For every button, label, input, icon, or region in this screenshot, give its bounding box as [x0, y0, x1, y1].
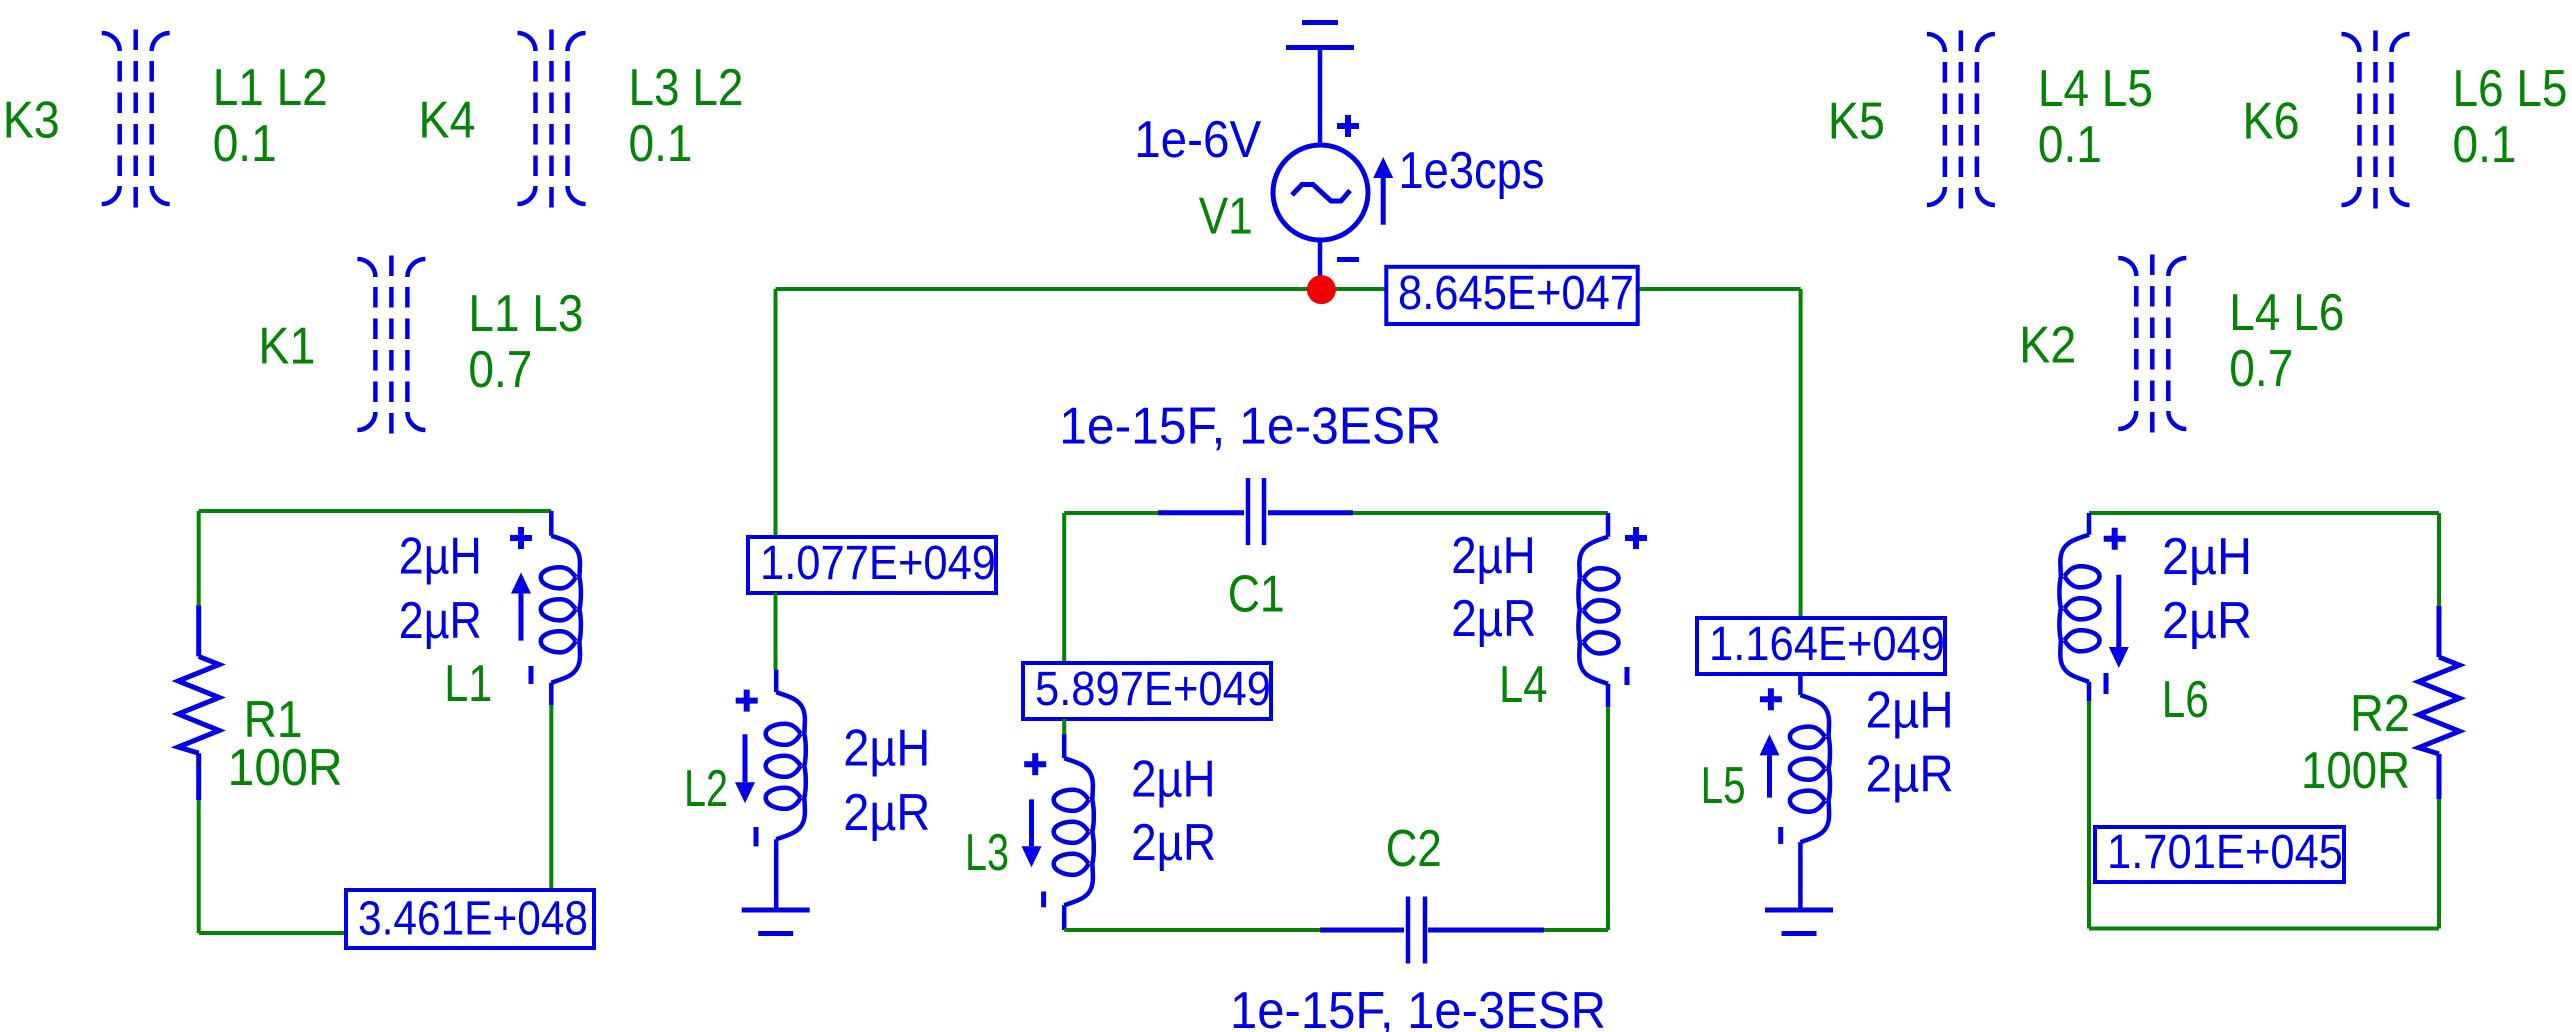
wire center bottom left: [1064, 928, 1322, 932]
inductor L6: [2059, 513, 2099, 701]
svg-text:L4: L4: [1499, 656, 1548, 714]
current box 5.897E+049: [1023, 663, 1271, 719]
svg-text:L2: L2: [684, 760, 728, 818]
pin + of L1: [510, 527, 532, 549]
svg-text:3.461E+048: 3.461E+048: [358, 893, 588, 946]
svg-text:V1: V1: [1199, 188, 1253, 246]
pin + of L6: [2104, 528, 2126, 550]
svg-text:L6: L6: [2162, 671, 2209, 729]
svg-text:2µR: 2µR: [1131, 814, 1216, 872]
svg-text:2µR: 2µR: [1451, 590, 1536, 648]
svg-text:5.897E+049: 5.897E+049: [1035, 663, 1271, 716]
svg-text:L6 L5: L6 L5: [2453, 60, 2568, 118]
ground (L2 bottom): [742, 910, 810, 934]
wire left loop bottom: [199, 931, 552, 935]
current arrow of L3 (down): [1022, 799, 1042, 867]
current box 1.701E+045: [2095, 826, 2344, 882]
current box 3.461E+048: [346, 890, 594, 948]
capacitor C1: [1158, 478, 1353, 545]
wire main horizontal (right segment to L5 branch): [1321, 287, 1801, 291]
svg-text:2µH: 2µH: [2162, 528, 2252, 586]
wire L3 branch upper: [1062, 513, 1066, 665]
wire left loop left upper: [197, 511, 201, 605]
svg-text:L1 L3: L1 L3: [468, 285, 583, 343]
pin + of L5: [1760, 688, 1782, 710]
node junction (red dot) at V1 minus: [1307, 275, 1336, 304]
pin - of L5: [1778, 827, 1783, 844]
svg-text:2µR: 2µR: [843, 784, 930, 842]
svg-text:1.164E+049: 1.164E+049: [1709, 618, 1945, 671]
coupling K3 symbol: [102, 30, 170, 209]
svg-text:2µR: 2µR: [399, 592, 482, 650]
current arrow of L5 (up): [1760, 734, 1780, 797]
current arrow of V1: [1373, 157, 1393, 225]
wire L3 branch stub: [1062, 719, 1066, 735]
resistor R1: [178, 605, 219, 800]
wire right loop top: [2089, 511, 2439, 515]
value label K6: L6 L5 0.1: [2453, 60, 2568, 174]
capacitor C2: [1320, 897, 1544, 964]
svg-text:0.7: 0.7: [2229, 340, 2293, 398]
svg-text:K4: K4: [419, 92, 476, 150]
svg-text:1.077E+049: 1.077E+049: [760, 537, 996, 590]
svg-text:C2: C2: [1386, 820, 1442, 878]
wire right loop bottom: [2089, 927, 2439, 931]
svg-text:L5: L5: [1701, 757, 1746, 815]
voltage source V1: [1273, 145, 1368, 240]
svg-text:K3: K3: [3, 92, 60, 150]
resistor R2: [2419, 606, 2460, 799]
current arrow of L1 (up): [511, 573, 531, 641]
current box 1.077E+049: [748, 537, 996, 593]
svg-text:0.1: 0.1: [213, 115, 277, 173]
pin + of L3: [1024, 753, 1046, 775]
inductor L3: [1054, 734, 1094, 930]
pin - of L6: [2104, 673, 2109, 694]
wire left loop top: [199, 509, 552, 513]
current box 1.164E+049: [1697, 618, 1945, 674]
wire right loop right upper: [2437, 513, 2441, 606]
svg-text:0.1: 0.1: [2038, 116, 2102, 174]
pin + of L2: [736, 690, 758, 712]
pin - of L4: [1625, 667, 1630, 685]
svg-text:2µH: 2µH: [1866, 682, 1954, 740]
svg-text:C1: C1: [1228, 565, 1285, 623]
svg-text:2µH: 2µH: [399, 528, 482, 586]
inductor L4: [1578, 513, 1618, 707]
coupling K5 symbol: [1927, 31, 1995, 210]
pin - of L1: [529, 666, 534, 684]
wire L2 branch top: [774, 289, 778, 539]
ground (L5 bottom): [1765, 910, 1833, 934]
svg-text:1e-15F, 1e-3ESR: 1e-15F, 1e-3ESR: [1059, 398, 1441, 456]
pin - of L3: [1041, 892, 1046, 908]
coupling K1 symbol: [357, 256, 425, 435]
svg-text:2µR: 2µR: [2162, 592, 2252, 650]
pin - of V1: [1337, 257, 1359, 262]
current arrow of L6 (down): [2109, 575, 2129, 668]
svg-text:100R: 100R: [2301, 742, 2410, 800]
coupling K2 symbol: [2118, 255, 2186, 434]
svg-text:0.1: 0.1: [629, 115, 693, 173]
value label K3: L1 L2 0.1: [213, 59, 328, 173]
svg-text:1.701E+045: 1.701E+045: [2107, 826, 2343, 879]
svg-text:L1 L2: L1 L2: [213, 59, 328, 117]
pin + of L4: [1625, 527, 1647, 549]
svg-text:8.645E+047: 8.645E+047: [1398, 267, 1634, 320]
wire left loop left lower: [197, 800, 201, 933]
wire main horizontal (left segment to L2 branch): [776, 287, 1322, 291]
svg-text:2µH: 2µH: [1451, 527, 1536, 585]
wire left loop right lower: [549, 705, 553, 933]
inductor L5: [1790, 674, 1830, 909]
wire L4 branch lower: [1606, 707, 1610, 930]
svg-text:100R: 100R: [228, 739, 343, 797]
wire L5 branch top: [1799, 289, 1803, 620]
inductor L2: [766, 670, 806, 909]
wire V1 bottom lead: [1318, 240, 1323, 289]
wire right loop left lower: [2087, 701, 2091, 929]
svg-text:K5: K5: [1828, 93, 1885, 151]
svg-text:0.7: 0.7: [468, 341, 532, 399]
wire right loop right lower: [2437, 799, 2441, 929]
svg-text:2µH: 2µH: [843, 720, 930, 778]
current arrow of L2 (down): [735, 734, 755, 803]
value label K4: L3 L2 0.1: [629, 59, 744, 173]
pin - of L2: [754, 827, 759, 846]
ground (top, at V1 plus terminal): [1286, 23, 1354, 48]
wire V1 top lead: [1318, 48, 1323, 146]
wire center top right: [1353, 511, 1608, 515]
svg-text:1e-6V: 1e-6V: [1134, 111, 1261, 169]
svg-text:L3 L2: L3 L2: [629, 59, 744, 117]
svg-text:K2: K2: [2019, 317, 2076, 375]
coupling K6 symbol: [2342, 31, 2410, 210]
pin + of V1: [1337, 115, 1359, 137]
svg-text:L4 L6: L4 L6: [2229, 284, 2344, 342]
svg-text:2µH: 2µH: [1131, 751, 1216, 809]
svg-text:2µR: 2µR: [1866, 746, 1954, 804]
current box 8.645E+047: [1386, 267, 1637, 324]
svg-text:1e3cps: 1e3cps: [1399, 142, 1545, 200]
svg-text:0.1: 0.1: [2453, 116, 2517, 174]
svg-text:L1: L1: [444, 655, 492, 713]
svg-text:L3: L3: [965, 824, 1009, 882]
inductor L1: [541, 511, 581, 705]
wire L2 branch middle: [774, 593, 778, 670]
svg-text:1e-15F, 1e-3ESR: 1e-15F, 1e-3ESR: [1230, 982, 1606, 1032]
coupling K4 symbol: [518, 30, 586, 209]
svg-text:K6: K6: [2243, 93, 2300, 151]
svg-text:R2: R2: [2350, 685, 2410, 743]
value label K2: L4 L6 0.7: [2229, 284, 2344, 398]
wire center bottom right: [1544, 928, 1608, 932]
svg-text:K1: K1: [258, 318, 315, 376]
value label K1: L1 L3 0.7: [468, 285, 583, 399]
value label K5: L4 L5 0.1: [2038, 60, 2153, 174]
wire center top left: [1064, 511, 1160, 515]
svg-text:L4 L5: L4 L5: [2038, 60, 2153, 118]
